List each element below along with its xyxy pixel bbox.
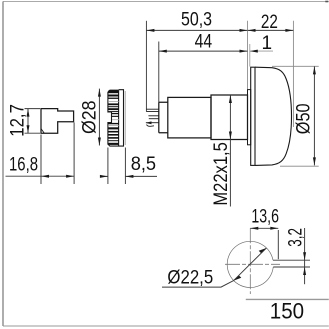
svg-text:Ø28: Ø28: [79, 101, 100, 135]
svg-text:1: 1: [262, 33, 273, 54]
dimension 13,6 line: [250, 227, 278, 229]
dimension 22 line: [248, 29, 294, 31]
dimension 12,7 extension lines: [25, 109, 41, 134]
collar ring: [248, 90, 251, 145]
thumbwheel knurled band outline: [108, 90, 119, 146]
dimension Ø22,5 arrows: [259, 248, 267, 253]
dimension Ø22,5 leader: [162, 281, 234, 288]
knob side profile outline: [41, 109, 74, 134]
dimension Ø22,5 diameter line: [234, 248, 267, 281]
threaded neck M22: [211, 95, 248, 140]
mounting hole circle: [227, 241, 273, 287]
dimension 1 line: [250, 50, 273, 52]
svg-text:M22x1,5: M22x1,5: [211, 142, 232, 205]
title separator line: [246, 298, 329, 300]
mounting hole horizontal centerline: [225, 263, 280, 265]
dimension 50,3 line: [146, 29, 247, 31]
terminal extension line left: [145, 21, 147, 112]
dimension 1 extension line: [249, 44, 251, 67]
mounting hole keyway notch: [273, 260, 310, 267]
thumbwheel smooth hub outline: [119, 90, 124, 146]
mounting hole vertical centerline: [249, 228, 251, 294]
head dome outline: [255, 67, 292, 165]
dimension Ø28 arrows: [98, 89, 101, 97]
contact block extension line: [158, 42, 160, 103]
dimension M22x1,5 arrows: [229, 95, 232, 103]
frame bottom border: [3, 325, 329, 327]
frame top border: [3, 1, 329, 3]
dimension Ø28 line: [98, 89, 100, 146]
dimension 1 arrow: [250, 50, 258, 53]
dimension 12,7 arrows: [27, 109, 30, 117]
dimension 8,5 arrows: [100, 175, 108, 178]
dimension 22 arrows: [248, 29, 256, 32]
dimension 3,2 arrows: [303, 252, 306, 260]
terminal tab: [146, 109, 158, 111]
svg-text:22: 22: [261, 12, 278, 33]
dimension 22 extension lines: [248, 21, 294, 127]
svg-text:50,3: 50,3: [181, 9, 212, 30]
head back flange: [251, 67, 255, 165]
dimension Ø50 line: [313, 66, 315, 165]
dimension 16,8 line: [6, 175, 75, 177]
thumbwheel knurling stripes middle: [112, 113, 119, 120]
dimension 44 line: [159, 50, 248, 52]
svg-text:150: 150: [270, 298, 304, 323]
dimension Ø50 arrows: [313, 66, 316, 74]
contact block rear step: [159, 102, 168, 133]
dimension 12,7 line: [27, 109, 29, 134]
terminal pin 3: [149, 118, 159, 120]
thumbwheel knurling stripes lower: [108, 123, 119, 145]
dimension 44 arrows: [159, 50, 167, 53]
dimension 8,5 extension lines: [108, 148, 126, 185]
dimension M22x1,5 line: [229, 95, 231, 207]
thumbwheel hub shadow edge: [124, 91, 126, 145]
dimension 13,6 arrows: [250, 227, 258, 230]
dimension 13,6 extension line: [277, 230, 279, 259]
dimension 16,8 extension lines: [41, 123, 74, 185]
dimension 3,2 line: [304, 228, 306, 284]
thumbwheel knurling stripes upper: [108, 90, 119, 112]
dimension 50,3 arrows: [146, 29, 154, 32]
dimension Ø50 extension lines: [272, 66, 319, 166]
svg-text:Ø22,5: Ø22,5: [167, 267, 213, 288]
svg-text:16,8: 16,8: [9, 154, 38, 175]
frame corner tick: [325, 1, 328, 3]
svg-text:Ø50: Ø50: [294, 103, 315, 134]
svg-text:8,5: 8,5: [131, 154, 156, 175]
knob chamfer detail: [41, 129, 44, 134]
svg-text:12,7: 12,7: [7, 104, 28, 137]
terminal pin 4 with lug: [146, 122, 159, 124]
frame left border: [2, 2, 4, 327]
terminal wire curl: [147, 125, 155, 127]
svg-text:44: 44: [195, 32, 213, 53]
terminal pin 2: [148, 115, 158, 117]
svg-text:3,2: 3,2: [286, 228, 307, 247]
dimension 16,8 arrows: [41, 175, 49, 178]
contact block body: [168, 97, 211, 137]
svg-text:13,6: 13,6: [251, 207, 279, 228]
dimension 8,5 line: [100, 175, 157, 177]
